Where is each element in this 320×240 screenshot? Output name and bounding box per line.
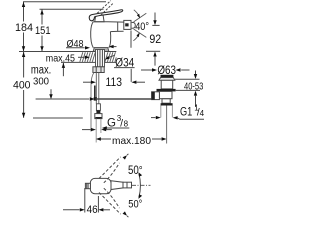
butt knob	[85, 183, 90, 188]
dim 92	[152, 24, 159, 26]
deck hatch right	[105, 52, 116, 62]
shank nut	[93, 67, 104, 73]
svg-text:40-53: 40-53	[184, 81, 204, 92]
svg-text:max.180: max.180	[112, 135, 151, 147]
dim 184	[23, 2, 25, 22]
tube diameter arrows	[82, 129, 91, 131]
dim 46	[84, 188, 86, 213]
svg-text:300: 300	[33, 75, 49, 87]
pop-up rod	[36, 98, 90, 100]
svg-text:4: 4	[200, 109, 205, 118]
centerline	[132, 184, 151, 186]
dashed 50 lines (lever phantom up)	[99, 157, 121, 179]
extension line top (184 level)	[23, 1, 106, 3]
spout joint line	[117, 22, 119, 31]
mousseur top view	[123, 182, 132, 188]
hose junction	[94, 97, 97, 100]
mousseur	[124, 20, 131, 29]
svg-text:151: 151	[35, 25, 51, 37]
dim max.300	[62, 63, 64, 76]
arcs 50	[139, 174, 141, 198]
body top / spout top	[93, 21, 123, 23]
svg-text:50°: 50°	[128, 165, 143, 177]
svg-text:92: 92	[149, 32, 161, 46]
svg-text:40°: 40°	[135, 21, 149, 33]
dim max.180	[96, 137, 101, 140]
40 deg annotation	[134, 13, 147, 22]
waste knob	[161, 75, 174, 78]
body	[91, 22, 94, 48]
svg-text:400: 400	[13, 80, 31, 92]
handle post	[95, 15, 104, 22]
svg-text:Ø63: Ø63	[157, 63, 176, 77]
svg-text:G1: G1	[180, 107, 192, 119]
hoses	[95, 73, 97, 104]
ext line mousseur down	[130, 31, 132, 48]
shank threads	[96, 50, 105, 67]
thread band	[161, 103, 173, 105]
deck hatch left	[80, 52, 95, 62]
tube below fitting	[95, 119, 97, 143]
deck top line	[19, 51, 116, 53]
lower neck	[162, 99, 170, 103]
flange	[157, 89, 176, 92]
side port	[152, 92, 160, 100]
dim 151	[41, 10, 43, 25]
hose 2	[91, 73, 94, 132]
svg-text:46: 46	[87, 204, 98, 216]
dim 113	[83, 81, 91, 83]
extension line (151 level)	[40, 8, 104, 10]
dashed 50 lines (lever phantom down)	[99, 193, 121, 215]
G3/8 fitting	[96, 104, 100, 111]
waste body	[159, 91, 172, 98]
deck bottom line	[61, 61, 116, 63]
svg-text:50°: 50°	[128, 198, 142, 210]
top view body	[90, 178, 111, 193]
dim G1 1/4	[151, 117, 156, 119]
svg-text:113: 113	[106, 77, 123, 89]
label O63	[141, 69, 152, 71]
waste centerline	[166, 106, 168, 144]
base plate	[93, 48, 109, 52]
line 400 bottom	[33, 117, 83, 119]
spout bottom	[110, 30, 123, 32]
tailpipe	[160, 106, 162, 118]
svg-text:max.45: max.45	[46, 53, 75, 64]
dim 40-53	[175, 78, 200, 80]
waste neck	[161, 80, 173, 89]
svg-text:8: 8	[124, 120, 129, 129]
aerator tip	[132, 22, 136, 28]
lever handle closed	[89, 10, 123, 21]
top view spout neck	[111, 181, 123, 190]
svg-text:184: 184	[15, 22, 33, 34]
dim 400	[23, 52, 25, 78]
lever raised (dashed)	[97, 1, 111, 14]
